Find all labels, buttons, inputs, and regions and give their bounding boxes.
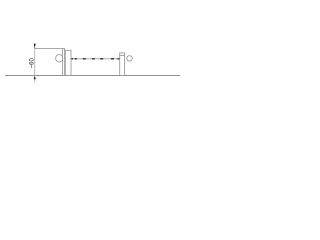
svg-text:~60: ~60 (29, 58, 35, 69)
dimension arrow bottom (34, 76, 36, 80)
right post (120, 53, 125, 76)
ground line (5, 75, 180, 77)
left pivot circle (56, 55, 63, 62)
right post seam (120, 54, 125, 56)
dimension line (vertical) (34, 43, 36, 82)
barrier arm dark sleeves (71, 58, 119, 60)
right end circle (127, 56, 132, 61)
left post flange (63, 49, 65, 76)
dimension arrow top (34, 44, 36, 49)
extension line (top, to post) (35, 48, 63, 50)
barrier arm line (71, 58, 120, 60)
left post housing (65, 50, 71, 75)
